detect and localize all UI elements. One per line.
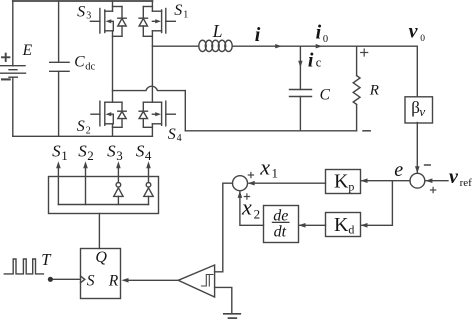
wire gate drive s1 — [57, 168, 59, 205]
wire capacitor branch — [299, 46, 301, 89]
svg-text:S: S — [87, 272, 95, 289]
wire S3 source to S2 drain — [112, 31, 114, 102]
svg-text:C: C — [74, 54, 85, 71]
clock pulse train T — [4, 259, 43, 274]
svg-text:E: E — [22, 42, 33, 59]
diode D3 — [113, 7, 127, 37]
svg-text:S: S — [136, 142, 145, 161]
battery E — [1, 66, 26, 78]
wire Q output up to driver — [98, 214, 100, 249]
block de/dt — [264, 206, 299, 243]
summing junction x1 x2 — [233, 176, 248, 191]
plus sign at R top — [361, 49, 368, 56]
wire S2 source to bottom rail — [112, 124, 114, 137]
arrow vref into junction — [425, 178, 432, 183]
plus sign below vref wire — [431, 187, 436, 192]
arrow x2 into summing junction bottom — [238, 191, 243, 198]
svg-text:1: 1 — [272, 166, 279, 181]
wire x2 path de/dt to summing junction — [240, 192, 264, 225]
resistor R — [353, 46, 360, 131]
svg-text:S: S — [77, 3, 85, 20]
wire driver inner bus — [58, 204, 148, 206]
wire vref input — [426, 180, 448, 182]
inverter for s3 — [114, 168, 123, 205]
wire comparator minus to ground — [215, 287, 232, 313]
svg-text:T: T — [41, 250, 52, 269]
flip-flop U2 — [81, 249, 121, 299]
svg-text:S: S — [174, 2, 182, 19]
svg-text:L: L — [212, 21, 223, 41]
wire top rail — [13, 0, 153, 2]
arrow into R input — [122, 278, 129, 283]
arrow x1 into summing junction — [248, 181, 255, 186]
svg-text:4: 4 — [145, 148, 152, 163]
svg-text:S: S — [78, 142, 87, 161]
arrow gate s2 — [83, 161, 88, 168]
minus sign at summing junction — [425, 164, 431, 166]
diode D4 — [139, 102, 152, 127]
svg-text:v: v — [419, 104, 425, 119]
wire return vertical — [184, 91, 186, 131]
svg-text:p: p — [348, 179, 354, 193]
svg-text:dc: dc — [85, 61, 95, 72]
battery minus sign — [2, 78, 10, 80]
wire filter bottom rail — [185, 130, 356, 132]
wire clock input to S — [53, 278, 81, 280]
wire summing output down to comparator — [215, 183, 233, 272]
arrow gate s4 — [146, 161, 151, 168]
diode D1 — [139, 7, 152, 37]
inverter for s4 — [144, 168, 153, 205]
transistor S1 — [152, 1, 175, 33]
clock wedge on S input — [81, 276, 85, 283]
wire battery top lead — [12, 1, 14, 66]
svg-text:4: 4 — [177, 133, 182, 144]
node clock dot — [48, 277, 53, 282]
svg-text:c: c — [316, 56, 322, 70]
arrow e into Kd — [361, 223, 368, 228]
wire left-leg midpoint with hop over right leg — [113, 86, 186, 90]
wire inductor to v0 node — [232, 45, 417, 47]
svg-text:S: S — [52, 142, 61, 161]
minus sign at R bottom — [363, 130, 370, 132]
wire comparator output to R input — [128, 279, 179, 281]
block beta_v — [405, 97, 433, 123]
arrow current ic — [298, 61, 302, 68]
arrow into de/dt — [299, 223, 306, 228]
svg-text:v: v — [449, 166, 459, 188]
svg-text:S: S — [107, 142, 116, 161]
svg-text:S: S — [168, 126, 176, 143]
summing junction vref — [410, 173, 425, 188]
transistor S3 — [90, 1, 113, 33]
svg-text:v: v — [409, 21, 419, 43]
svg-text:e: e — [394, 159, 403, 181]
svg-text:0: 0 — [420, 34, 425, 44]
svg-text:x: x — [259, 154, 270, 179]
arrow current i0 — [316, 44, 323, 48]
wire v0 node down to beta_v — [416, 46, 418, 96]
svg-text:i: i — [308, 50, 314, 72]
svg-text:d: d — [348, 223, 354, 237]
arrow gate s3 — [116, 161, 121, 168]
diode D2 — [113, 102, 127, 127]
capacitor C — [290, 90, 312, 131]
svg-text:1: 1 — [183, 9, 188, 20]
battery plus sign — [2, 54, 9, 61]
svg-text:C: C — [320, 87, 331, 104]
svg-text:i: i — [255, 24, 261, 46]
wire beta_v to summing junction — [416, 123, 418, 173]
arrow current i — [275, 44, 282, 48]
svg-text:ref: ref — [460, 177, 473, 189]
transistor S2 — [91, 101, 113, 126]
transistor S4 — [152, 101, 175, 126]
svg-text:i: i — [316, 22, 322, 44]
svg-text:1: 1 — [61, 148, 67, 163]
block Kp — [326, 170, 361, 194]
svg-text:dt: dt — [274, 224, 287, 241]
wire gate drive s2 — [85, 168, 87, 205]
ground — [224, 314, 241, 318]
wire e output — [362, 180, 411, 182]
arrow e into Kp — [361, 178, 368, 183]
svg-text:2: 2 — [87, 148, 94, 163]
comparator U1 — [178, 265, 214, 297]
wire S1 source to S4 drain — [151, 31, 153, 102]
inductor L — [199, 40, 232, 51]
wire Kd output to de/dt — [300, 224, 326, 226]
svg-text:K: K — [334, 214, 349, 236]
wire Kp output x1 — [249, 182, 326, 184]
driver box — [49, 177, 159, 214]
block Kd — [326, 213, 361, 237]
capacitor Cdc — [50, 1, 69, 136]
svg-text:2: 2 — [86, 125, 91, 136]
plus sign x2 input — [244, 194, 249, 199]
svg-text:3: 3 — [116, 148, 123, 163]
arrow gate s1 — [56, 161, 61, 168]
svg-text:Q: Q — [95, 249, 107, 266]
svg-text:3: 3 — [86, 10, 91, 21]
svg-text:0: 0 — [323, 34, 328, 45]
svg-text:S: S — [77, 118, 85, 135]
svg-text:R: R — [369, 83, 379, 99]
wire battery bottom lead — [12, 77, 14, 136]
wire right-leg midpoint to inductor — [152, 45, 198, 47]
wire e branch down to Kd — [362, 181, 393, 226]
svg-text:K: K — [334, 171, 349, 193]
hysteresis symbol — [202, 275, 214, 287]
svg-text:R: R — [108, 273, 119, 290]
plus sign x1 input — [248, 172, 253, 177]
svg-text:x: x — [241, 195, 252, 220]
arrow into summing junction top — [415, 166, 420, 173]
wire S4 source to bottom rail — [151, 124, 153, 137]
svg-text:2: 2 — [254, 206, 261, 221]
wire bottom rail — [13, 135, 153, 137]
